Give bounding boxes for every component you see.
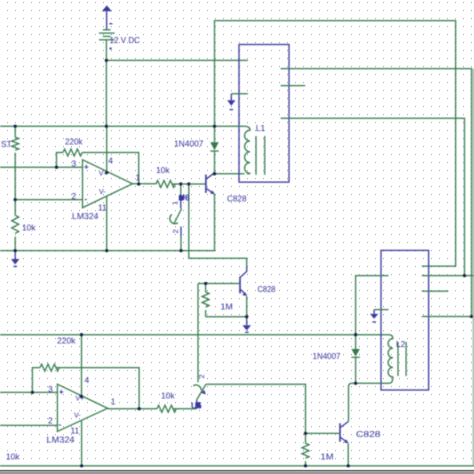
svg-text:220k: 220k [65, 136, 83, 146]
svg-text:L1: L1 [256, 123, 266, 133]
svg-text:1N4007: 1N4007 [313, 351, 341, 361]
svg-text:-: - [85, 195, 88, 204]
svg-text:ST: ST [1, 139, 12, 149]
svg-text:10k: 10k [161, 391, 175, 401]
svg-text:2: 2 [171, 229, 180, 233]
svg-text:1: 1 [111, 396, 116, 406]
svg-text:LM324: LM324 [72, 211, 99, 221]
svg-text:C828: C828 [356, 429, 381, 439]
svg-text:+: + [59, 388, 64, 397]
svg-text:U5: U5 [191, 401, 202, 411]
svg-text:V+: V+ [76, 396, 85, 403]
svg-text:1N4007: 1N4007 [174, 139, 204, 149]
svg-text:2: 2 [72, 191, 77, 201]
svg-text:U6: U6 [179, 193, 190, 203]
svg-text:LM324: LM324 [47, 435, 75, 445]
svg-text:1: 1 [136, 173, 141, 183]
svg-text:2: 2 [197, 374, 206, 378]
svg-text:1M: 1M [221, 302, 233, 312]
svg-text:V-: V- [74, 413, 81, 420]
svg-text:220k: 220k [57, 336, 76, 346]
svg-text:11: 11 [98, 203, 107, 213]
svg-text:12 V DC: 12 V DC [110, 35, 141, 45]
svg-text:1M: 1M [321, 452, 334, 462]
svg-text:4: 4 [108, 156, 113, 166]
svg-text:10k: 10k [156, 165, 170, 175]
svg-text:10k: 10k [6, 452, 20, 462]
svg-text:C828: C828 [258, 284, 276, 294]
svg-text:V-: V- [99, 189, 106, 196]
svg-text:C828: C828 [227, 194, 247, 204]
svg-text:L2: L2 [396, 339, 406, 349]
svg-text:+: + [84, 163, 89, 172]
svg-text:3: 3 [48, 384, 53, 394]
svg-text:2: 2 [48, 416, 53, 426]
svg-text:V+: V+ [99, 171, 108, 178]
svg-text:1: 1 [171, 201, 180, 205]
svg-text:-: - [59, 420, 62, 429]
svg-text:10k: 10k [22, 223, 36, 233]
svg-text:4: 4 [85, 375, 90, 385]
svg-text:3: 3 [72, 159, 77, 169]
